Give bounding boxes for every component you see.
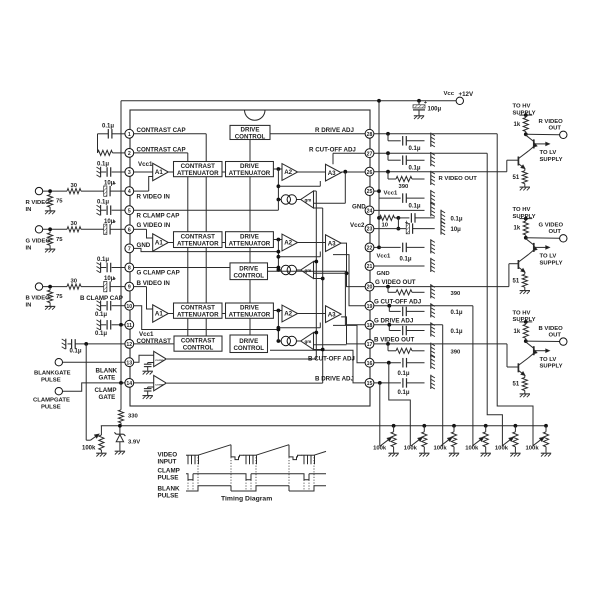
svg-text:A1: A1 <box>155 169 163 176</box>
svg-text:CONTRAST: CONTRAST <box>181 234 216 241</box>
resistor 30 (R series) <box>67 189 81 194</box>
svg-text:0.1μ: 0.1μ <box>398 371 410 377</box>
svg-text:24: 24 <box>367 209 373 215</box>
op-amp A2 (G) <box>282 234 298 251</box>
wire R feedback to gm <box>344 172 346 204</box>
wire pin27 to pot5 wiper <box>487 153 502 446</box>
svg-text:14: 14 <box>126 381 132 387</box>
terminal B VIDEO IN <box>35 283 42 290</box>
capacitor 0.1u at pin 27 <box>387 153 389 160</box>
wire pin9 video in to A1 <box>134 286 147 288</box>
op-amp A3 (B output amp) <box>326 306 342 323</box>
svg-text:+12V: +12V <box>459 91 474 98</box>
svg-text:B VIDEO: B VIDEO <box>26 296 51 302</box>
ground below pot 6 <box>541 452 551 454</box>
resistor 330 <box>120 383 122 410</box>
svg-text:CONTRAST CAP: CONTRAST CAP <box>137 127 186 134</box>
capacitor 10u input coupling (G) <box>104 224 107 234</box>
svg-text:G CLAMP CAP: G CLAMP CAP <box>137 270 180 277</box>
svg-text:ATTENUATOR: ATTENUATOR <box>177 241 219 248</box>
wire feedback loop (B) <box>277 311 279 342</box>
svg-text:A3: A3 <box>328 311 336 318</box>
wire pin3 Vcc1 to A1 <box>134 171 153 173</box>
wire A1 out (B) <box>168 313 173 315</box>
svg-text:0.1μ: 0.1μ <box>409 166 421 172</box>
resistor 75 (G input termination) <box>49 231 51 233</box>
svg-text:PULSE: PULSE <box>41 377 61 383</box>
pin 25 <box>365 187 374 196</box>
svg-text:0.1μ: 0.1μ <box>400 256 412 262</box>
svg-text:DRIVE: DRIVE <box>240 234 259 241</box>
pin 9 <box>125 282 134 291</box>
svg-text:+: + <box>405 220 409 226</box>
wire attenuator link (G) <box>222 242 226 244</box>
svg-text:IN: IN <box>26 207 32 213</box>
wire 30 to cap (B) <box>81 286 104 288</box>
capacitor 0.1u at pin 3 <box>101 171 106 173</box>
op-amp A2 (R) <box>282 164 298 181</box>
resistor 51 (R emitter) <box>524 169 526 171</box>
ground right of pin 28 cap <box>430 133 432 147</box>
svg-text:100k: 100k <box>82 445 96 451</box>
wire pin10 B clamp cap <box>134 306 279 330</box>
bottom adjust rail <box>101 425 546 427</box>
ground below pot 3 <box>449 452 459 454</box>
wire R input <box>43 190 67 192</box>
svg-text:R VIDEO: R VIDEO <box>26 200 51 206</box>
wire pin7 GND reference <box>134 248 279 251</box>
capacitor 0.1u at pin 18 <box>388 325 390 331</box>
wire G output node <box>524 236 528 240</box>
capacitor 0.1u at pin 16 <box>402 358 404 368</box>
svg-text:gm: gm <box>305 268 312 273</box>
svg-text:7: 7 <box>128 247 131 253</box>
svg-text:Vcc1: Vcc1 <box>384 190 398 196</box>
wire pin8 G clamp cap <box>134 267 279 269</box>
pin 13 <box>125 358 134 367</box>
svg-text:CONTRAST: CONTRAST <box>137 338 172 345</box>
svg-text:1: 1 <box>128 132 131 138</box>
svg-text:22: 22 <box>367 246 373 252</box>
resistor 390 (B video out) <box>387 344 389 351</box>
wire pin1 loop <box>112 133 125 135</box>
svg-text:13: 13 <box>126 360 132 366</box>
wire pin6 video in to A1 <box>134 228 147 230</box>
svg-text:CLAMP: CLAMP <box>95 387 117 394</box>
svg-text:B CUT-OFF ADJ: B CUT-OFF ADJ <box>308 355 355 362</box>
resistor contrast (pins 1-2) <box>98 150 113 155</box>
capacitor 0.1u at pin 25 <box>379 197 401 199</box>
wire R video out to QR2 base <box>506 160 508 172</box>
terminal Vcc +12V <box>456 97 463 104</box>
pin 24 <box>365 206 374 215</box>
IC notch <box>245 110 266 120</box>
svg-text:390: 390 <box>451 291 462 297</box>
timing diagram guide lines <box>197 457 199 486</box>
svg-text:CONTROL: CONTROL <box>183 345 214 352</box>
capacitor 0.1u at pin 19 <box>388 306 390 312</box>
transistor QB1 (PNP upper) <box>533 346 535 355</box>
svg-text:A1: A1 <box>155 311 163 318</box>
pin 2 <box>125 149 134 158</box>
svg-text:gm: gm <box>305 339 312 344</box>
op-amp A2 (B) <box>282 305 298 322</box>
block DRIVE ATTENUATOR (R) <box>226 162 274 177</box>
block CONTRAST ATTENUATOR (R) <box>174 162 223 177</box>
ground right of pin 16 cap <box>430 355 432 369</box>
svg-text:CONTROL: CONTROL <box>235 133 266 140</box>
pin 21 <box>365 262 374 271</box>
svg-text:6: 6 <box>128 227 131 233</box>
block DRIVE ATTENUATOR (B) <box>226 303 274 318</box>
wire pin19 G cut-off adj out <box>374 305 473 307</box>
wire A1 out (R) <box>168 171 173 173</box>
svg-text:TO LV: TO LV <box>540 150 557 156</box>
svg-text:DRIVE: DRIVE <box>239 265 258 272</box>
wire pin18 to pot3 wiper <box>442 325 444 446</box>
pin 3 <box>125 168 134 177</box>
ground right of 390 (B) <box>430 343 432 357</box>
wire pin1 to contrast bus <box>134 133 207 135</box>
svg-text:CLAMP: CLAMP <box>158 467 180 474</box>
wire contrast bus B <box>187 153 189 336</box>
pin 12 <box>125 340 134 349</box>
gm amp (B clamp comparator) <box>297 340 302 342</box>
wire G input <box>43 228 67 230</box>
ground below zener <box>115 450 125 452</box>
capacitor 10u input coupling (B) <box>104 281 107 291</box>
wire pin18 G drive adj to G drive control <box>268 271 366 325</box>
wire pin28 R drive adj to drive control <box>270 133 365 135</box>
potentiometer 100k (adjust pot 4) <box>484 424 488 428</box>
svg-text:1k: 1k <box>514 329 521 335</box>
wire pin27 R cut-off adj <box>333 152 365 154</box>
svg-text:G VIDEO: G VIDEO <box>539 223 564 229</box>
wire pin27 R cut-off adj out <box>374 152 487 154</box>
wire pin26 R video out <box>374 171 507 173</box>
pin 27 <box>365 149 374 158</box>
ground right of pin 15 cap <box>430 375 432 389</box>
potentiometer 100k (adjust pot 6) <box>544 424 548 428</box>
svg-text:GND: GND <box>377 271 390 277</box>
pin 28 <box>365 129 374 138</box>
svg-text:BLANKGATE: BLANKGATE <box>34 370 71 376</box>
pin 22 <box>365 243 374 252</box>
gm amp (G clamp comparator) <box>297 269 302 271</box>
pin 8 <box>125 263 134 272</box>
svg-text:DRIVE: DRIVE <box>241 126 260 133</box>
svg-text:G VIDEO: G VIDEO <box>26 238 51 244</box>
svg-text:A2: A2 <box>284 240 292 247</box>
wire pin23 Vcc2 <box>374 228 406 230</box>
wire left Vcc bus <box>120 101 122 383</box>
pin 20 <box>365 282 374 291</box>
svg-text:TO HV: TO HV <box>513 207 531 213</box>
wire pin28 to pot6 wiper <box>497 134 533 446</box>
svg-text:SUPPLY: SUPPLY <box>540 260 563 266</box>
svg-text:10: 10 <box>126 304 132 310</box>
svg-text:11: 11 <box>127 323 133 329</box>
svg-text:PULSE: PULSE <box>158 474 179 481</box>
capacitor 0.1u at pin 10 <box>101 305 106 307</box>
resistor 390 (G video out) <box>387 287 389 293</box>
wire pin2 to contrast bus <box>134 152 188 154</box>
svg-text:R CUT-OFF ADJ: R CUT-OFF ADJ <box>309 146 356 153</box>
ground below 51 (R) <box>520 186 530 188</box>
svg-text:GND: GND <box>352 204 366 211</box>
block DRIVE CONTROL (B) <box>230 335 268 353</box>
pin 10 <box>125 301 134 310</box>
svg-text:GATE: GATE <box>99 394 116 401</box>
op-amp A3 (G output amp) <box>326 235 342 252</box>
svg-text:SUPPLY: SUPPLY <box>540 157 563 163</box>
ground below 51 (G) <box>520 290 530 292</box>
svg-text:17: 17 <box>367 342 373 348</box>
ground left of pin 11 cap <box>100 320 102 330</box>
svg-text:B DRIVE ADJ: B DRIVE ADJ <box>315 376 355 383</box>
svg-text:A3: A3 <box>328 240 336 247</box>
svg-text:VIDEO: VIDEO <box>158 452 178 459</box>
svg-text:9: 9 <box>128 285 131 291</box>
wire gm gate stubs (B) <box>314 332 317 334</box>
svg-text:28: 28 <box>367 132 373 138</box>
wire 30 to cap (G) <box>81 228 104 230</box>
resistor 1k (G HV) <box>525 219 527 221</box>
capacitor 0.1u at pin 12 <box>68 343 72 345</box>
svg-text:OUT: OUT <box>549 333 562 339</box>
wire pin15 to pot1 wiper <box>379 383 381 446</box>
svg-text:BLANK: BLANK <box>158 485 180 492</box>
wire A3-R out to pin 26 <box>341 171 365 173</box>
capacitor 100u supply filter <box>417 99 421 103</box>
svg-text:TO HV: TO HV <box>513 311 531 317</box>
wire pin16 B cut-off adj <box>333 325 365 362</box>
svg-text:30: 30 <box>71 278 78 284</box>
svg-text:100k: 100k <box>526 446 540 452</box>
svg-text:DRIVE: DRIVE <box>240 163 259 170</box>
svg-text:0.1μ: 0.1μ <box>97 162 109 168</box>
pin 23 <box>365 224 374 233</box>
svg-text:51: 51 <box>513 175 520 181</box>
wire pin5 R clamp cap <box>277 200 279 211</box>
wire pin15 B drive adj to B drive control <box>270 350 365 383</box>
wire A3-G out to pin 20 <box>341 243 365 287</box>
ground right of 390 (R) <box>430 171 432 185</box>
svg-text:1k: 1k <box>514 226 521 232</box>
svg-text:comp: comp <box>155 382 163 386</box>
svg-text:26: 26 <box>367 170 373 176</box>
ground right of Vcc2 10u <box>440 220 442 234</box>
wire attenuator link (B) <box>222 313 226 315</box>
pin 18 <box>365 320 374 329</box>
wire A2 to A3 (R) <box>298 171 326 173</box>
capacitor 0.1u contrast (pins 1-2) <box>107 129 109 139</box>
svg-text:0.1μ: 0.1μ <box>409 146 421 152</box>
svg-text:100k: 100k <box>434 446 448 452</box>
wire pin22 Vcc1 <box>374 246 379 248</box>
ground left of pin 10 cap <box>100 301 102 311</box>
pin 26 <box>365 167 374 176</box>
svg-text:390: 390 <box>399 184 410 190</box>
resistor 10 (Vcc2 filter) <box>377 216 381 220</box>
ground right of pin 25 cap <box>430 190 432 204</box>
resistor 1k (R HV) <box>525 115 527 117</box>
svg-text:0.1μ: 0.1μ <box>451 310 463 316</box>
svg-text:ATTENUATOR: ATTENUATOR <box>229 312 271 319</box>
svg-text:G VIDEO OUT: G VIDEO OUT <box>375 279 416 286</box>
current source pair (R clamp) <box>278 199 281 201</box>
svg-text:10μ: 10μ <box>451 227 462 233</box>
resistor 75 (R input termination) <box>49 193 51 195</box>
capacitor 10u input coupling (R) <box>104 186 107 196</box>
capacitor 0.1u at pin 11 <box>101 324 106 326</box>
wire pin20 G video out <box>374 286 509 288</box>
ground below pot 2 <box>419 452 429 454</box>
svg-text:100k: 100k <box>404 446 418 452</box>
resistor 51 (G emitter) <box>524 272 526 274</box>
svg-text:27: 27 <box>367 151 373 157</box>
comparator blank gate (pin 13) <box>134 355 154 362</box>
svg-text:Vcc1: Vcc1 <box>138 161 153 168</box>
svg-text:ATTENUATOR: ATTENUATOR <box>229 170 271 177</box>
svg-text:G CUT-OFF ADJ: G CUT-OFF ADJ <box>374 298 422 305</box>
svg-text:75: 75 <box>56 199 63 205</box>
terminal R VIDEO IN <box>35 187 42 194</box>
ground right of pin 19 cap <box>430 303 432 317</box>
svg-text:1k: 1k <box>514 122 521 128</box>
wire pin15 B drive adj out <box>374 382 401 384</box>
op-amp A3 (R output amp) <box>326 164 342 181</box>
svg-text:Vcc: Vcc <box>444 91 455 97</box>
svg-text:0.1μ: 0.1μ <box>451 329 463 335</box>
resistor 51 (B emitter) <box>524 375 526 377</box>
wire A2 to A3 (B) <box>298 313 326 315</box>
svg-text:CONTRAST: CONTRAST <box>181 338 216 345</box>
transistor QG1 (PNP upper) <box>533 243 535 252</box>
svg-text:100μ: 100μ <box>428 107 442 113</box>
svg-text:0.1μ: 0.1μ <box>95 331 107 337</box>
ground below blank gate comparator <box>143 370 153 372</box>
wire drive bus <box>249 140 251 337</box>
ground below pot 5 <box>510 452 520 454</box>
wire blankgate <box>63 361 125 363</box>
svg-text:10: 10 <box>382 223 389 229</box>
svg-text:OUT: OUT <box>549 126 562 132</box>
resistor 390 (R video out) <box>387 172 389 179</box>
svg-text:390: 390 <box>451 350 462 356</box>
svg-text:3: 3 <box>128 170 131 176</box>
wire drive attenuator to A2 (G) <box>273 239 282 241</box>
svg-text:INPUT: INPUT <box>158 459 177 466</box>
svg-text:GND: GND <box>137 242 151 249</box>
wire A2 to A3 (G) <box>298 242 326 244</box>
transistor QB2 (NPN lower) <box>517 363 519 372</box>
svg-text:51: 51 <box>513 382 520 388</box>
wire contrast bus A <box>205 134 207 336</box>
svg-text:DRIVE: DRIVE <box>239 338 258 345</box>
svg-text:BLANK: BLANK <box>96 368 118 375</box>
svg-text:CONTROL: CONTROL <box>233 345 264 352</box>
wire pin12 contrast to contrast control <box>134 343 175 345</box>
wire pin19 G cut-off adj <box>333 255 365 306</box>
potentiometer 100k (adjust pot 5) <box>514 424 518 428</box>
current source pair (G clamp) <box>278 269 281 271</box>
terminal BLANKGATE PULSE <box>55 359 62 366</box>
ground right of Vcc2 0.1u <box>440 210 442 224</box>
pin 7 <box>125 244 134 253</box>
wire pin28 R drive adj out <box>374 133 497 135</box>
wire blank gate bus <box>167 358 316 360</box>
wire pin25 Vcc1 <box>374 190 379 192</box>
svg-text:Timing Diagram: Timing Diagram <box>221 496 272 503</box>
wire 30 to cap (R) <box>81 190 104 192</box>
wire A3-B out to pin 17 <box>341 317 365 344</box>
svg-text:75: 75 <box>56 237 63 243</box>
capacitor 0.1u at pin 22 <box>379 246 401 248</box>
svg-text:R DRIVE ADJ: R DRIVE ADJ <box>315 127 355 134</box>
wire pin19 to pot4 wiper <box>472 306 474 446</box>
wire G video out to QG2 base <box>508 264 510 287</box>
svg-text:Vcc2: Vcc2 <box>350 222 365 229</box>
svg-text:330: 330 <box>128 414 139 420</box>
svg-text:CONTRAST CAP: CONTRAST CAP <box>137 146 186 153</box>
wire pin24 GND <box>374 209 425 211</box>
svg-text:19: 19 <box>367 304 373 310</box>
svg-text:GATE: GATE <box>99 375 116 382</box>
svg-text:A2: A2 <box>284 311 292 318</box>
svg-text:TO HV: TO HV <box>513 104 531 110</box>
pin 6 <box>125 225 134 234</box>
capacitor 0.1u at pin 8 <box>101 267 106 269</box>
wire clamp gate bus <box>167 382 323 384</box>
svg-text:G DRIVE ADJ: G DRIVE ADJ <box>374 318 414 325</box>
svg-text:Vcc1: Vcc1 <box>139 331 154 338</box>
svg-text:+: + <box>424 100 428 106</box>
block CONTRAST ATTENUATOR (B) <box>174 303 223 318</box>
svg-text:2: 2 <box>128 151 131 157</box>
svg-text:75: 75 <box>56 294 63 300</box>
resistor 1k (B HV) <box>525 322 527 324</box>
capacitor 0.1u at pin 28 <box>387 134 389 141</box>
capacitor 0.1u at pin 15 <box>402 378 404 388</box>
svg-text:100k: 100k <box>373 446 387 452</box>
svg-text:8: 8 <box>128 266 131 272</box>
ground left of pin 8 cap <box>100 262 102 272</box>
svg-text:100k: 100k <box>495 446 509 452</box>
svg-text:OUT: OUT <box>549 229 562 235</box>
svg-text:4: 4 <box>128 189 131 195</box>
svg-text:25: 25 <box>367 189 373 195</box>
ground right of pin 22 cap <box>430 239 432 253</box>
wire Vcc2 junction <box>397 218 399 229</box>
wire B video out to QB2 base <box>506 344 508 367</box>
ground right of pin 18 cap <box>430 322 432 336</box>
capacitor 10u (Vcc2) <box>406 223 409 233</box>
svg-text:TO LV: TO LV <box>540 254 557 260</box>
potentiometer 100k (adjust pot 2) <box>422 424 426 428</box>
pin 5 <box>125 206 134 215</box>
svg-text:30: 30 <box>71 183 78 189</box>
svg-text:IN: IN <box>26 303 32 309</box>
ground left of pin 3 cap <box>100 167 102 177</box>
IC body LM1203 <box>130 110 370 406</box>
block CONTRAST CONTROL <box>174 336 222 351</box>
svg-text:0.1μ: 0.1μ <box>398 390 410 396</box>
block DRIVE CONTROL (G) <box>230 263 268 280</box>
current source pair (B clamp) <box>278 340 281 342</box>
svg-text:A1: A1 <box>155 240 163 247</box>
op-amp A1 (B input buffer) <box>153 305 169 322</box>
